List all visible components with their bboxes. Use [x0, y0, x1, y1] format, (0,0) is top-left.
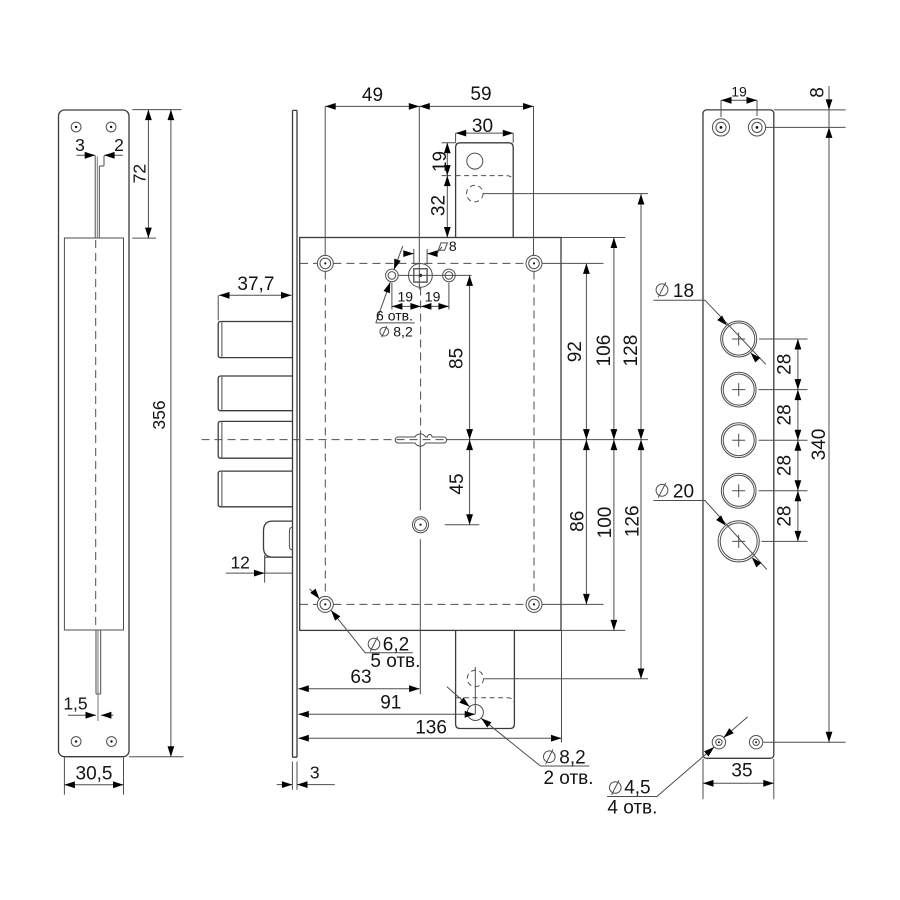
upper mounting tab — [456, 143, 514, 238]
lower tab hole solid — [467, 705, 483, 721]
lower mounting tab — [456, 630, 515, 728]
svg-text:19: 19 — [398, 288, 414, 304]
dashed mounting rectangle — [300, 263, 534, 604]
svg-text:3: 3 — [75, 135, 85, 155]
svg-text:6 отв.: 6 отв. — [376, 307, 413, 323]
deadbolt 4 — [218, 471, 292, 507]
svg-text:106: 106 — [594, 335, 615, 367]
svg-text:72: 72 — [130, 164, 150, 183]
dim 30 tab width — [456, 116, 514, 143]
plate screw top-left — [712, 119, 729, 136]
lower fixing screw hole — [413, 517, 429, 533]
svg-text:63: 63 — [350, 667, 371, 688]
label d20 with leader — [654, 481, 767, 569]
inner lock case box — [64, 238, 123, 630]
dim 30,5 — [64, 758, 123, 795]
svg-text:59: 59 — [470, 84, 491, 105]
svg-text:356: 356 — [149, 400, 169, 429]
faceplate edge strip — [293, 110, 298, 757]
tick from lower dashed hole to 126 dim — [484, 678, 648, 680]
svg-text:100: 100 — [595, 507, 616, 539]
svg-text:2: 2 — [114, 135, 124, 155]
label d4,5 4 otv with leader — [607, 717, 748, 819]
latch bolt D-piece — [264, 521, 293, 557]
dim 91 — [298, 693, 475, 718]
faceplate side view plate — [59, 110, 130, 757]
svg-text:8,2: 8,2 — [393, 324, 413, 340]
svg-text:8: 8 — [449, 238, 457, 254]
screw hole top-left — [71, 122, 81, 132]
RIGHT-VIEW — [607, 83, 846, 818]
plate screw bottom-left — [712, 736, 725, 749]
svg-text:86: 86 — [568, 511, 589, 532]
svg-text:19: 19 — [425, 288, 441, 304]
svg-text:20: 20 — [673, 481, 694, 502]
dim 19 top screws — [721, 83, 757, 117]
screw hole top-right — [106, 122, 116, 132]
svg-text:8,2: 8,2 — [559, 747, 585, 768]
strike cylinder plate — [703, 110, 774, 758]
label 6 otv d8,2 with leader — [376, 246, 415, 340]
body screw top-left — [317, 255, 333, 271]
body screw bottom-right — [526, 596, 542, 612]
svg-text:30,5: 30,5 — [76, 764, 113, 785]
svg-text:85: 85 — [446, 348, 467, 369]
svg-text:91: 91 — [380, 693, 401, 714]
cylinder hole 5 d20 — [718, 521, 759, 562]
svg-text:126: 126 — [622, 505, 643, 537]
dim 35 — [703, 759, 774, 800]
spindle square hole — [409, 264, 433, 288]
lower slot lines — [96, 631, 101, 722]
handle screw hole left — [386, 269, 399, 282]
deadbolt 2 — [218, 376, 292, 411]
svg-text:19: 19 — [430, 151, 451, 172]
dim 19 19 handle holes — [392, 283, 449, 310]
vertical centerline below square hole (dashed) — [420, 288, 422, 434]
svg-text:49: 49 — [362, 85, 383, 106]
cylinder hole 3 — [721, 423, 756, 458]
svg-text:4,5: 4,5 — [624, 778, 650, 799]
svg-text:5 отв.: 5 отв. — [370, 651, 420, 672]
dim 3 and 2 (slot widths) — [75, 135, 124, 159]
dim 128 and 126 — [621, 194, 644, 679]
lower tab hole dashed — [467, 670, 483, 686]
LEFT-VIEW — [59, 110, 184, 795]
dim 136 — [298, 631, 561, 743]
svg-text:45: 45 — [447, 473, 468, 494]
svg-text:37,7: 37,7 — [237, 274, 274, 295]
dim 37,7 bolt length — [218, 274, 291, 321]
svg-text:32: 32 — [429, 195, 450, 216]
dim 12 latch — [226, 553, 265, 583]
dim 92 and 86 — [542, 263, 603, 604]
svg-text:128: 128 — [621, 335, 642, 367]
cylinder hole 2 — [721, 372, 756, 407]
dim 85 and 45 — [445, 275, 480, 524]
lock body rectangle — [300, 238, 561, 631]
dim 106 and 100 — [561, 238, 625, 631]
horizontal centerline solid tick to dims — [446, 439, 648, 441]
upper slot lines — [95, 156, 104, 238]
dim 19 and 32 tab — [429, 143, 456, 238]
svg-text:3: 3 — [310, 762, 320, 782]
svg-text:28: 28 — [775, 354, 796, 375]
svg-text:1,5: 1,5 — [63, 694, 87, 714]
dim square 8 — [403, 238, 457, 264]
lower tab centerline — [474, 667, 476, 714]
horizontal centerline dashed — [202, 439, 447, 441]
latch lower housing — [265, 557, 293, 573]
svg-text:30: 30 — [472, 116, 493, 137]
lower tab door-edge dashed line — [456, 698, 515, 705]
svg-text:2 отв.: 2 отв. — [543, 768, 593, 789]
dim 49 and 59 — [325, 84, 533, 290]
cylinder hole 1 d18 — [721, 321, 757, 357]
MIDDLE-VIEW — [202, 84, 649, 790]
dim 356 — [129, 110, 184, 757]
label d6,2 5 otv with leader — [310, 589, 421, 672]
svg-text:28: 28 — [775, 455, 796, 476]
dim 63 — [298, 667, 419, 692]
vertical dashed centerline — [95, 240, 97, 630]
dim 28 stack — [759, 339, 808, 541]
body screw bottom-left — [317, 596, 333, 612]
keyhole — [395, 434, 446, 446]
cylinder hole 4 — [721, 473, 756, 508]
handle screw hole right — [443, 269, 456, 282]
tick from upper dashed hole to 128 dim — [483, 193, 648, 195]
svg-text:136: 136 — [415, 717, 447, 738]
svg-text:35: 35 — [731, 761, 752, 782]
dim 72 — [130, 110, 182, 239]
screw hole bottom-left — [71, 737, 81, 747]
svg-text:92: 92 — [565, 341, 586, 362]
upper tab hole dashed — [467, 185, 484, 202]
label d18 with leader — [654, 281, 766, 365]
dim 3 faceplate thickness — [277, 762, 335, 790]
deadbolt 1 — [218, 322, 292, 358]
label d8,2 2 otv with leader — [447, 687, 594, 789]
upper tab door-edge dashed line — [456, 176, 514, 183]
deadbolt 3 — [218, 421, 292, 458]
svg-text:4 отв.: 4 отв. — [607, 798, 657, 819]
body screw top-right — [526, 255, 542, 271]
svg-text:8: 8 — [807, 87, 828, 98]
screw hole bottom-right — [107, 737, 117, 747]
svg-text:12: 12 — [230, 553, 249, 573]
plate screw bottom-right — [749, 736, 762, 749]
upper tab hole solid — [467, 153, 483, 169]
svg-text:340: 340 — [809, 429, 830, 461]
vertical line keyhole to lower hole — [419, 434, 421, 694]
svg-text:19: 19 — [731, 83, 747, 99]
svg-text:28: 28 — [775, 404, 796, 425]
tick through handle holes — [398, 274, 471, 276]
svg-text:18: 18 — [673, 281, 694, 302]
plate screw top-right — [748, 119, 765, 136]
dim 8 right and 340 shared line — [763, 86, 845, 742]
svg-text:28: 28 — [775, 506, 796, 527]
dim 1,5 — [63, 694, 113, 719]
